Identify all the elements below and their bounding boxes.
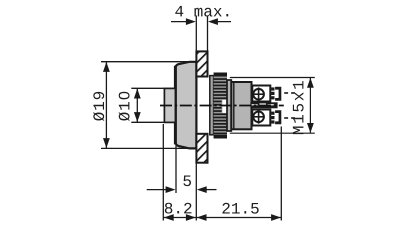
text 5 — [183, 175, 191, 186]
middle contact band — [250, 102, 277, 108]
exposed thread strip — [210, 76, 214, 135]
dimension 8.2 — [164, 214, 197, 221]
text 8.2 — [165, 203, 192, 214]
lower terminal block — [252, 110, 270, 126]
centerline — [160, 105, 284, 107]
bezel front face thick line — [174, 66, 177, 145]
upper terminal clamp — [271, 87, 281, 101]
lower hidden dashes — [284, 117, 295, 119]
text 21.5 — [222, 203, 258, 214]
dimension M15x1 — [230, 78, 315, 134]
lower terminal clamp — [271, 110, 281, 124]
text diameter 10 label — [119, 92, 130, 121]
extension line A (button face) — [162, 124, 164, 221]
notch in nut right side at centerline — [222, 100, 227, 113]
text M15x1 label — [293, 81, 304, 134]
dimension 21.5 — [197, 214, 281, 221]
text 4 max. — [175, 6, 228, 17]
dimension diameter 19 — [101, 62, 190, 149]
housing inner line — [233, 82, 235, 129]
extension line C (panel face) — [195, 164, 197, 221]
dimension 5 — [147, 186, 217, 193]
upper terminal block — [252, 86, 270, 102]
panel upper section (hatched) — [196, 51, 207, 76]
panel lower section (hatched) — [196, 134, 207, 163]
push button — [164, 88, 175, 122]
upper hidden dashes — [284, 92, 295, 94]
dimension 4 max. extension lines — [171, 16, 231, 52]
extension line D (terminal end) — [280, 127, 282, 221]
washer step ring — [227, 80, 231, 131]
switch housing body — [231, 82, 251, 129]
dimension diameter 10 — [131, 88, 164, 122]
extension line B (bezel face) — [175, 146, 177, 194]
bell bezel body — [175, 62, 196, 149]
text diameter 19 label — [93, 92, 104, 121]
knurled nut ribs — [214, 73, 227, 139]
